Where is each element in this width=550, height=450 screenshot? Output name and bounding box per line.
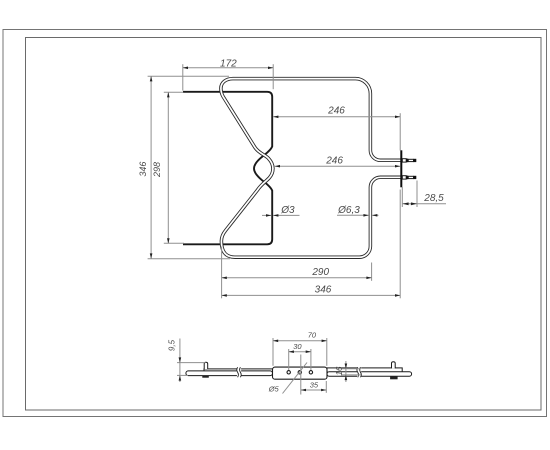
side bar upper-left	[204, 369, 273, 373]
ext plate vertical upper	[399, 113, 401, 150]
ext 35 right	[325, 381, 327, 393]
svg-text:70: 70	[308, 331, 317, 340]
ext 30 right	[310, 349, 312, 370]
dim 35 line	[301, 389, 327, 391]
terminal pin upper end cap	[414, 159, 417, 162]
ext 346L bottom horizontal	[148, 258, 230, 260]
svg-text:Ø6,3: Ø6,3	[337, 205, 360, 216]
side bar lower-right	[327, 372, 412, 377]
hole center	[298, 371, 301, 374]
svg-text:28,5: 28,5	[423, 193, 444, 204]
arrows 35	[301, 389, 306, 392]
terminal pin lower stub	[402, 176, 406, 179]
leader d5	[283, 363, 308, 394]
arrows d3	[266, 214, 271, 217]
tube outline	[221, 79, 402, 258]
arrows 346 left	[150, 76, 153, 81]
arrows 290	[222, 277, 227, 280]
ext 346 right vertical (plate)	[399, 190, 401, 299]
dim 298 left vertical line	[167, 92, 169, 243]
svg-text:35: 35	[310, 381, 319, 390]
ext 298L bottom horizontal	[164, 242, 184, 244]
svg-text:172: 172	[220, 59, 237, 70]
dim d3 right segment	[273, 214, 299, 216]
dim 28,5 line	[403, 203, 447, 205]
terminal pin lower collar	[406, 176, 408, 180]
dim 346 left vertical line	[150, 76, 152, 258]
ext 30 left	[288, 349, 290, 370]
dim d6,3 left segment	[337, 214, 369, 216]
svg-text:246: 246	[325, 156, 343, 167]
dim 246 lower line	[275, 165, 400, 167]
side bar upper-right	[327, 368, 402, 372]
terminal pin lower end cap	[414, 176, 417, 179]
side clip left	[202, 376, 209, 378]
dim d6,3 right segment	[372, 214, 378, 216]
svg-text:346: 346	[315, 285, 332, 296]
dim 70 line	[273, 340, 327, 342]
svg-text:Ø3: Ø3	[280, 205, 295, 216]
arrows 28,5	[403, 202, 409, 205]
ext bottom-left vertical	[221, 247, 223, 299]
side bar lower-left	[186, 371, 273, 376]
dim 290 line	[222, 277, 372, 279]
svg-text:Ø5: Ø5	[268, 384, 280, 393]
hole left	[287, 371, 290, 374]
svg-text:246: 246	[327, 106, 345, 117]
svg-text:298: 298	[152, 162, 162, 178]
svg-text:346: 346	[138, 162, 148, 177]
ext 9,5 bottom	[177, 374, 188, 376]
ext 172 left	[182, 64, 184, 90]
terminal pin upper stub	[402, 159, 406, 162]
ext 172 right	[272, 64, 274, 89]
svg-text:290: 290	[311, 267, 329, 278]
arrows 346 bottom	[222, 294, 227, 297]
svg-text:30: 30	[293, 342, 302, 351]
ext 290 right vertical	[371, 263, 373, 281]
ext center-hole vertical	[300, 355, 302, 395]
ext 346L top horizontal	[148, 75, 229, 77]
dim d3 left segment	[262, 214, 271, 216]
ext 16 top	[341, 368, 361, 370]
ext 28,5 left (plate lower)	[401, 187, 403, 207]
inner sheet border	[26, 38, 542, 411]
terminal pin upper collar	[406, 159, 408, 163]
dim 246 upper line	[273, 116, 400, 118]
dim 9,5 vertical	[179, 339, 181, 383]
break mark right	[357, 367, 361, 377]
ext 9,5 top	[177, 362, 206, 364]
ext 70 left	[272, 338, 274, 366]
dim 346 bottom line	[222, 294, 401, 296]
hole right	[309, 371, 312, 374]
arrows d6,3	[363, 214, 368, 217]
terminal pin upper neck	[408, 159, 413, 161]
dim 16 vertical	[345, 361, 347, 382]
arrows 246 upper	[273, 116, 278, 119]
arrows 298 left	[167, 92, 170, 97]
plate	[400, 150, 402, 187]
svg-text:16: 16	[335, 366, 344, 375]
side clip right	[390, 376, 398, 379]
ext 28,5 right	[416, 181, 418, 208]
side plate	[273, 367, 328, 379]
rod bracket	[183, 92, 272, 245]
terminal pin lower neck	[408, 176, 413, 178]
side pin left	[204, 362, 208, 369]
arrows 30	[289, 350, 294, 353]
dim 30 line	[289, 351, 311, 353]
dim 172 line	[183, 67, 273, 69]
ext 70 right	[326, 338, 328, 366]
arrows 16 outside	[345, 364, 348, 369]
arrows 9,5 outside	[179, 357, 182, 362]
ext 16 bottom	[341, 374, 361, 376]
arrows 70	[273, 340, 278, 343]
ext 298L top horizontal	[164, 91, 183, 93]
svg-text:9,5: 9,5	[167, 339, 176, 351]
side pin right	[392, 362, 396, 369]
break mark left	[237, 367, 241, 377]
arrows 172	[183, 67, 188, 70]
arrows 246 lower	[275, 165, 280, 168]
